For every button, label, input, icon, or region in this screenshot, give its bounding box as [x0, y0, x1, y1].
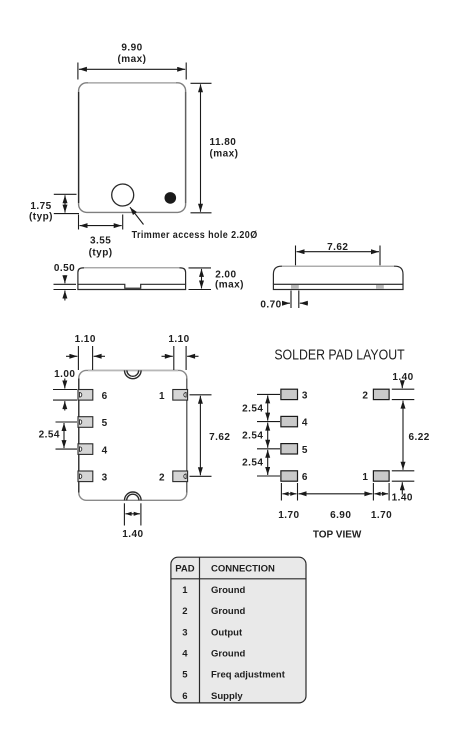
castellation half holes	[80, 393, 187, 479]
svg-text:6: 6	[182, 691, 187, 702]
svg-text:3: 3	[182, 627, 187, 638]
dimension 6.22	[402, 401, 404, 470]
pad 6	[78, 390, 93, 401]
svg-text:2.54: 2.54	[39, 430, 60, 441]
svg-text:5: 5	[302, 445, 308, 456]
svg-text:11.80: 11.80	[210, 137, 237, 148]
pad 5	[78, 417, 93, 428]
side pad right	[376, 285, 384, 289]
dimension 1.10 right	[162, 346, 199, 370]
svg-text:1: 1	[362, 472, 368, 483]
side base strip	[273, 284, 403, 289]
svg-text:1.10: 1.10	[75, 334, 96, 345]
bottom view top edge highlight	[88, 369, 178, 371]
table column divider	[199, 557, 201, 703]
dimension 0.70	[283, 291, 308, 309]
svg-text:(typ): (typ)	[89, 247, 113, 258]
solder pad 2	[373, 389, 389, 399]
svg-text:Trimmer access hole 2.20Ø: Trimmer access hole 2.20Ø	[132, 230, 258, 241]
side base strip with centre notch	[78, 284, 186, 289]
svg-text:CONNECTION: CONNECTION	[211, 564, 275, 575]
package left edge dark	[78, 92, 80, 203]
svg-text:4: 4	[302, 418, 308, 429]
svg-text:4: 4	[102, 445, 108, 456]
svg-text:4: 4	[182, 649, 188, 660]
solder pad 3	[281, 389, 298, 399]
svg-text:Ground: Ground	[211, 649, 245, 660]
dimension 1.75 (typ)	[54, 194, 79, 213]
svg-text:1.00: 1.00	[54, 369, 75, 380]
trimmer hole circle	[112, 184, 134, 206]
svg-text:2: 2	[159, 473, 165, 484]
svg-text:0.50: 0.50	[54, 263, 75, 274]
svg-text:(max): (max)	[118, 54, 147, 65]
svg-text:1: 1	[159, 391, 165, 402]
svg-text:Output: Output	[211, 627, 243, 638]
side profile top edge highlight	[84, 267, 180, 269]
svg-text:1.40: 1.40	[392, 372, 413, 383]
svg-text:1.75: 1.75	[30, 201, 51, 212]
svg-text:TOP VIEW: TOP VIEW	[313, 529, 362, 540]
svg-text:5: 5	[182, 670, 188, 681]
dimension 1.00	[53, 379, 77, 411]
castellation hole pad 1	[184, 393, 186, 398]
svg-text:3.55: 3.55	[90, 236, 111, 247]
svg-text:3: 3	[102, 473, 108, 484]
svg-text:(max): (max)	[215, 279, 244, 290]
svg-text:Supply: Supply	[211, 691, 243, 702]
bottom view right edge	[186, 379, 188, 493]
svg-text:6: 6	[302, 472, 308, 483]
svg-text:9.90: 9.90	[121, 42, 142, 53]
table box	[171, 557, 306, 703]
svg-text:1.70: 1.70	[278, 510, 299, 521]
dimension 1.40 top right	[392, 381, 415, 400]
svg-text:0.70: 0.70	[260, 299, 281, 310]
dimension 11.80 (max)	[191, 83, 212, 213]
package right edge	[185, 92, 187, 203]
svg-text:Ground: Ground	[211, 606, 245, 617]
pad 2	[173, 471, 188, 482]
svg-text:2: 2	[362, 390, 368, 401]
dimension 1.40 bottom	[124, 503, 140, 525]
side profile top edge highlight	[282, 265, 394, 267]
index dot	[165, 192, 177, 204]
dimension 0.50	[54, 275, 77, 300]
bottom notch arcs	[125, 492, 142, 500]
package top edge highlight	[88, 82, 176, 84]
solder pad 4	[281, 416, 298, 426]
bottom view body outline	[79, 370, 187, 500]
side profile body	[273, 266, 403, 284]
dimension 2.54 bottom view	[56, 422, 78, 449]
package outline	[79, 83, 186, 213]
svg-text:3: 3	[302, 390, 308, 401]
svg-text:2.54: 2.54	[242, 458, 263, 469]
svg-text:Ground: Ground	[211, 585, 245, 596]
svg-text:5: 5	[102, 418, 108, 429]
svg-text:6.22: 6.22	[409, 432, 430, 443]
svg-text:7.62: 7.62	[327, 242, 348, 253]
bottom dimensions 1.70 / 6.90 / 1.70	[281, 483, 389, 501]
svg-text:1.10: 1.10	[168, 334, 189, 345]
bottom view left edge dark	[78, 379, 80, 493]
dimension 1.10 left	[66, 346, 105, 370]
castellation hole pad 6	[80, 393, 82, 398]
svg-text:2: 2	[182, 606, 187, 617]
castellation hole pad 2	[184, 474, 186, 479]
pads left column: 6,5,4,3	[78, 390, 188, 482]
svg-text:1.40: 1.40	[122, 529, 143, 540]
svg-text:1: 1	[182, 585, 188, 596]
side pad left	[291, 285, 299, 289]
trimmer access hole callout	[130, 207, 144, 224]
side profile body	[78, 268, 186, 284]
dimension 2.00 (max)	[189, 268, 212, 290]
solder pad 6	[281, 471, 298, 481]
svg-text:2.54: 2.54	[242, 431, 263, 442]
svg-text:(max): (max)	[210, 149, 239, 160]
svg-text:SOLDER PAD LAYOUT: SOLDER PAD LAYOUT	[274, 347, 404, 364]
svg-text:7.62: 7.62	[209, 432, 230, 443]
dimension 3.55 (typ)	[79, 215, 123, 230]
svg-text:Freq adjustment: Freq adjustment	[211, 670, 286, 681]
svg-text:(typ): (typ)	[29, 212, 53, 223]
dimension 7.62 (side)	[296, 246, 381, 266]
pad 3	[78, 471, 93, 482]
dimension 7.62 bottom view	[190, 395, 212, 477]
pad 4	[78, 444, 93, 455]
solder pad 5	[281, 444, 298, 454]
svg-text:PAD: PAD	[175, 564, 194, 575]
solder pads left: 3,4,5,6	[281, 389, 389, 481]
top notch arcs	[125, 370, 142, 378]
castellation hole pad 4	[80, 447, 82, 452]
solder pad 1	[373, 471, 389, 481]
pad 1	[173, 390, 188, 401]
dimensions 2.54 x3	[257, 394, 280, 476]
svg-text:6: 6	[102, 391, 108, 402]
castellation hole pad 5	[80, 420, 82, 425]
svg-text:2.54: 2.54	[242, 403, 263, 414]
svg-text:6.90: 6.90	[330, 510, 351, 521]
table header divider	[171, 578, 306, 580]
svg-text:1.70: 1.70	[371, 510, 392, 521]
castellation hole pad 3	[80, 474, 82, 479]
svg-text:1.40: 1.40	[392, 492, 413, 503]
dimension 9.90 (max)	[78, 63, 186, 80]
dimension 1.40 bottom right	[392, 471, 415, 495]
